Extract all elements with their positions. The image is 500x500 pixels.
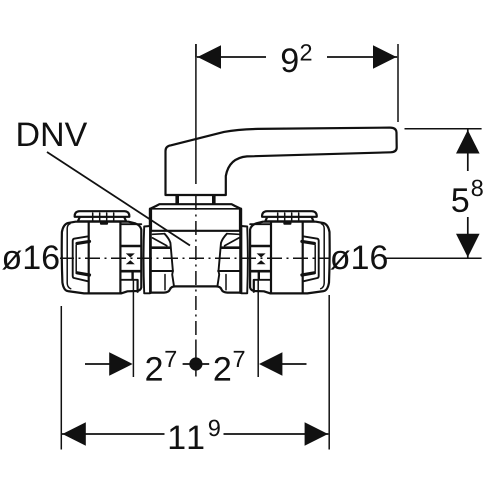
text tdi_left: "ø16" — [2, 245, 58, 269]
text t58_sup: "8" — [472, 180, 483, 197]
collar — [151, 204, 240, 231]
text t92_sup: "2" — [301, 44, 312, 60]
lower detail verticals — [164, 275, 166, 290]
valve body center — [147, 209, 244, 293]
text t27b_main: "2" — [215, 357, 230, 381]
ledges — [151, 246, 170, 249]
dimension 2x7 2x7 — [85, 280, 307, 377]
text t119_main: "11" — [170, 426, 204, 449]
front column right edge — [217, 234, 227, 287]
text t92_main: "9" — [282, 48, 298, 72]
bottom profile — [147, 286, 244, 292]
text t27a_main: "2" — [146, 357, 161, 381]
flow indicator bowtie — [126, 253, 135, 264]
shoulder sail left — [153, 233, 165, 236]
top tab bar — [75, 211, 130, 217]
dimension 9x2 top — [196, 40, 398, 122]
centre dot — [189, 357, 202, 370]
valve stem bars — [175, 195, 215, 205]
vertical centerline — [195, 44, 197, 377]
subpanel lines — [120, 223, 141, 225]
centre band edges — [88, 222, 90, 294]
text tdi_right: "ø16" — [331, 245, 387, 269]
outer silhouette — [62, 222, 142, 294]
top tab lower plate — [78, 217, 126, 222]
shoulder sail right — [227, 233, 239, 236]
DNV label and leader — [47, 152, 190, 246]
horizontal centerline — [59, 257, 329, 259]
text t27b_sup: "7" — [234, 351, 245, 367]
tab ridges — [92, 213, 94, 221]
window inner left edge — [75, 245, 77, 271]
text t58_main: "5" — [452, 188, 468, 212]
thick side edges — [149, 209, 152, 293]
left push-fit connector — [62, 211, 150, 293]
text t119_sup: "9" — [209, 420, 220, 437]
tab notch — [102, 222, 107, 225]
window thick bars — [77, 241, 90, 243]
diameter labels — [0, 242, 60, 272]
text tdnv: "DNV" — [18, 123, 87, 146]
inner contour along left edge — [67, 224, 71, 289]
flange ring — [144, 226, 150, 293]
right push-fit connector (mirror) — [241, 211, 329, 293]
front column left edge — [165, 234, 175, 287]
C-bracket window frame — [73, 236, 88, 281]
text t27a_sup: "7" — [165, 351, 176, 367]
handle lever — [166, 128, 397, 195]
dimension 5x8 right — [385, 129, 485, 258]
dimension 11x9 bottom — [61, 295, 329, 451]
